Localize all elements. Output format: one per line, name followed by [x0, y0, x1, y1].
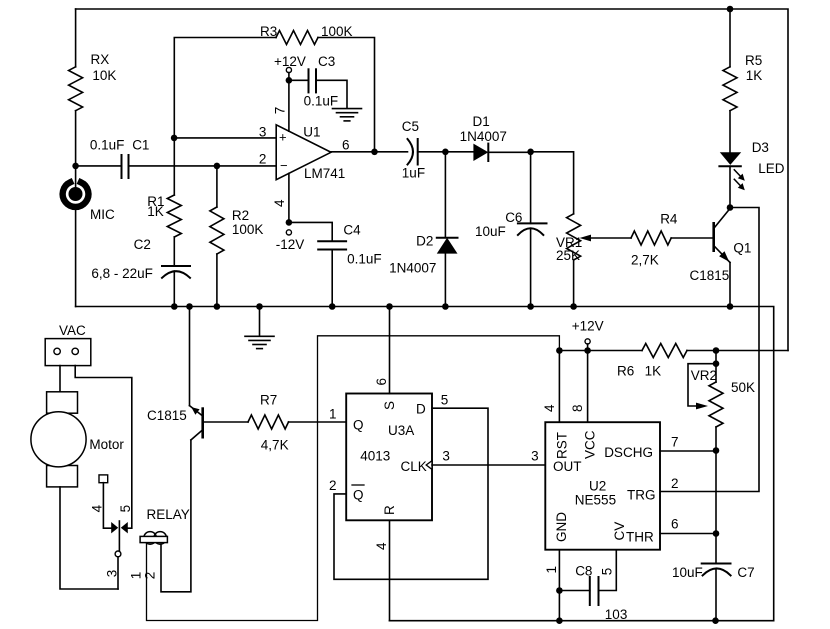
node rail C6 — [527, 303, 534, 310]
svg-text:5: 5 — [118, 505, 133, 513]
wire R2 bottom — [216, 254, 218, 307]
pin 2 label — [259, 151, 267, 166]
LED D3 — [719, 140, 784, 208]
svg-text:C1: C1 — [132, 138, 149, 153]
svg-text:RX: RX — [91, 52, 110, 67]
svg-text:R7: R7 — [260, 393, 277, 408]
svg-text:VCC: VCC — [583, 430, 598, 459]
svg-text:C1815: C1815 — [147, 408, 187, 423]
svg-text:4: 4 — [272, 199, 287, 207]
node R6 left junction — [556, 347, 563, 354]
wire pin3 — [174, 124, 276, 139]
svg-text:6: 6 — [671, 516, 679, 531]
wire bottom ground rail — [390, 620, 774, 622]
svg-text:D3: D3 — [752, 140, 769, 155]
svg-text:C5: C5 — [402, 119, 419, 134]
svg-text:Q1: Q1 — [733, 241, 751, 256]
node rail R1 — [171, 303, 178, 310]
wire +12V top rail and right edge — [76, 9, 788, 351]
svg-text:C4: C4 — [343, 222, 361, 237]
wire rail to Q2 — [189, 307, 191, 406]
svg-text:3: 3 — [259, 124, 267, 139]
wire 555 pin5 CV — [599, 550, 617, 590]
svg-text:CLK: CLK — [401, 459, 427, 474]
wire op-amp output — [331, 151, 408, 153]
resistor R2 — [210, 207, 264, 254]
node op-amp output junction — [371, 149, 378, 156]
svg-text:10uF: 10uF — [475, 224, 506, 239]
node VR2 top junction — [713, 347, 720, 354]
wire R1 to C2 — [173, 237, 175, 266]
svg-text:D2: D2 — [416, 234, 433, 249]
svg-text:CV: CV — [612, 522, 627, 541]
resistor R5 — [723, 53, 762, 111]
+12V supply 555 — [572, 319, 604, 352]
ground symbol C3 — [333, 109, 362, 121]
transistor Q2 C1815 — [147, 406, 203, 440]
wire pin4 — [272, 173, 289, 222]
wire R5 to LED — [729, 111, 731, 152]
svg-text:D1: D1 — [473, 114, 490, 129]
wire VAC right to contact 5 — [75, 366, 132, 529]
wire Q1 collector to TRG — [660, 208, 759, 492]
svg-text:+12V: +12V — [274, 54, 306, 69]
wire R5 top — [729, 9, 731, 67]
svg-text:C6: C6 — [505, 210, 522, 225]
wire to D1 — [445, 151, 473, 153]
svg-text:4013: 4013 — [360, 449, 390, 464]
node C8 junction — [556, 587, 563, 594]
svg-text:0.1uF: 0.1uF — [347, 251, 382, 266]
wire RX to mic node — [75, 111, 77, 166]
wire relay pin1 to +12V line — [147, 336, 560, 621]
svg-text:2: 2 — [329, 478, 337, 493]
svg-text:0.1uF: 0.1uF — [304, 93, 339, 108]
diode D2 — [389, 234, 457, 307]
potentiometer VR1 — [556, 214, 631, 307]
svg-text:8: 8 — [570, 404, 585, 412]
resistor R3 — [260, 24, 353, 45]
wire 555 pin7 DSCHG — [660, 435, 716, 452]
svg-text:RST: RST — [555, 432, 570, 459]
capacitor C2 — [91, 237, 190, 307]
IC U3A 4013 — [346, 394, 432, 521]
wire U3A pin6 S — [374, 307, 390, 394]
node THR junction — [713, 530, 720, 537]
svg-text:50K: 50K — [731, 380, 755, 395]
VAC source — [45, 323, 91, 366]
svg-text:1K: 1K — [147, 204, 164, 219]
svg-text:3: 3 — [531, 449, 539, 464]
wire U3A pin5 D to pin2 Qbar — [329, 393, 488, 580]
svg-text:5: 5 — [441, 393, 449, 408]
ground symbol rail — [245, 307, 274, 349]
wire 555 pin6 THR — [660, 516, 716, 533]
capacitor C3 — [289, 54, 347, 108]
node mic/C1 junction — [72, 163, 79, 170]
node rail VR1 — [570, 303, 577, 310]
svg-text:NE555: NE555 — [575, 493, 616, 508]
svg-text:−: − — [280, 158, 288, 173]
svg-text:10K: 10K — [92, 68, 116, 83]
svg-text:U2: U2 — [589, 479, 606, 494]
wire mic node to MIC — [75, 166, 77, 194]
node rail ground — [256, 303, 263, 310]
svg-text:1N4007: 1N4007 — [389, 261, 436, 276]
node bottom rail 555 GND — [556, 617, 563, 624]
svg-text:OUT: OUT — [553, 459, 582, 474]
svg-text:R: R — [382, 505, 397, 515]
node bottom rail C7 — [712, 617, 719, 624]
capacitor C5 — [402, 119, 446, 180]
svg-text:C7: C7 — [737, 565, 754, 580]
wire MIC to ground rail — [75, 210, 77, 306]
capacitor C4 — [289, 222, 382, 306]
node DSCHG junction — [713, 447, 720, 454]
svg-text:MIC: MIC — [90, 207, 115, 222]
svg-text:R3: R3 — [260, 24, 277, 39]
wire pin3 node down to R1 — [173, 138, 175, 195]
node +12V junction — [286, 77, 293, 84]
wire 555 pin8 VCC — [570, 351, 588, 423]
node rail R2 — [214, 303, 221, 310]
svg-text:DSCHG: DSCHG — [604, 445, 653, 460]
svg-text:Q: Q — [353, 488, 364, 503]
svg-text:C2: C2 — [134, 237, 151, 252]
wire left edge above RX — [75, 9, 77, 67]
svg-text:0.1uF: 0.1uF — [90, 138, 125, 153]
transistor Q1 — [690, 209, 752, 307]
svg-text:1: 1 — [129, 572, 144, 580]
capacitor C1 — [76, 138, 277, 178]
wire mid ground rail — [76, 307, 774, 621]
node rail D2 — [442, 303, 449, 310]
svg-text:5: 5 — [600, 568, 615, 576]
IC U2 NE555 — [545, 422, 660, 550]
wire U3A pin1 Q label — [329, 407, 337, 422]
-12V supply U1 — [276, 230, 305, 252]
svg-text:1uF: 1uF — [402, 165, 425, 180]
svg-text:2,7K: 2,7K — [631, 253, 659, 268]
svg-text:+: + — [279, 130, 287, 145]
svg-text:6: 6 — [342, 138, 350, 153]
svg-text:TRG: TRG — [627, 488, 656, 503]
node VCC junction — [584, 347, 591, 354]
555 pin2 TRG label — [671, 476, 679, 491]
svg-text:LED: LED — [758, 161, 785, 176]
svg-text:4: 4 — [374, 542, 389, 550]
wire Q2 bottom to relay pin2 — [161, 440, 191, 592]
wire 555 pin4 RST — [542, 351, 559, 423]
microphone MIC — [63, 182, 115, 222]
node rail C4 — [329, 303, 336, 310]
svg-text:103: 103 — [605, 607, 628, 622]
node Q1 collector junction — [727, 204, 734, 211]
svg-text:1: 1 — [544, 566, 559, 574]
svg-text:RELAY: RELAY — [147, 507, 190, 522]
svg-text:2: 2 — [671, 476, 679, 491]
svg-text:7: 7 — [273, 107, 288, 115]
svg-text:R2: R2 — [232, 208, 249, 223]
wire D2 top — [444, 152, 446, 238]
svg-text:100K: 100K — [232, 222, 264, 237]
relay contact pin5 — [118, 505, 133, 534]
resistor RX — [69, 52, 117, 111]
node top rail to R5 — [727, 6, 734, 13]
node rail Q2 — [186, 303, 193, 310]
svg-text:6,8 - 22uF: 6,8 - 22uF — [91, 266, 153, 281]
svg-text:1K: 1K — [746, 68, 763, 83]
svg-text:4: 4 — [90, 504, 105, 512]
svg-text:GND: GND — [554, 512, 569, 542]
svg-text:1N4007: 1N4007 — [460, 129, 507, 144]
svg-text:10uF: 10uF — [672, 565, 703, 580]
op-amp U1 — [276, 125, 349, 181]
svg-text:1K: 1K — [645, 364, 662, 379]
wire D1 to VR1 — [531, 152, 574, 214]
svg-text:3: 3 — [105, 570, 120, 578]
wire R6 line — [559, 350, 788, 352]
node -12V junction — [286, 219, 293, 226]
capacitor C7 — [672, 564, 755, 621]
+12V supply U1 — [274, 54, 306, 80]
resistor R6 — [617, 344, 687, 379]
motor M — [31, 392, 125, 487]
svg-text:2: 2 — [259, 151, 267, 166]
wire U3A pin3 CLK to 555 OUT — [432, 449, 545, 465]
wire pin7 — [273, 80, 289, 131]
capacitor C6 — [475, 152, 547, 307]
svg-text:VAC: VAC — [59, 323, 86, 338]
relay pin 2 label — [143, 572, 158, 580]
svg-text:R6: R6 — [617, 364, 634, 379]
wire VR2 to THR to C7 — [715, 450, 717, 564]
svg-text:S: S — [382, 401, 397, 410]
wire motor to contact common — [60, 487, 118, 589]
svg-text:VR2: VR2 — [691, 368, 717, 383]
svg-text:U3A: U3A — [388, 423, 414, 438]
resistor R4 — [631, 211, 714, 267]
wire R3 right to output — [318, 38, 375, 152]
svg-text:C8: C8 — [575, 563, 592, 578]
resistor R1 — [147, 194, 181, 237]
svg-text:3: 3 — [442, 449, 450, 464]
node op-amp pin3 junction — [171, 135, 178, 142]
relay coil RELAY — [140, 507, 190, 544]
svg-text:4: 4 — [542, 404, 557, 412]
svg-text:-12V: -12V — [276, 237, 305, 252]
node rail U3A S — [386, 303, 393, 310]
wire 555 pin1 GND — [544, 550, 559, 621]
svg-text:1: 1 — [329, 407, 337, 422]
wire R2 top — [216, 166, 218, 207]
svg-text:Q: Q — [353, 418, 364, 433]
svg-text:+12V: +12V — [572, 319, 604, 334]
relay contact pin4 — [90, 475, 119, 534]
svg-text:25K: 25K — [556, 248, 580, 263]
resistor R7 — [203, 393, 347, 453]
svg-text:LM741: LM741 — [304, 166, 345, 181]
node C6 junction — [527, 149, 534, 156]
svg-text:U1: U1 — [303, 125, 320, 140]
capacitor C8 — [559, 563, 627, 622]
wire VAC left to motor — [59, 366, 61, 392]
svg-text:R5: R5 — [745, 53, 762, 68]
diode D1 — [460, 114, 531, 161]
svg-text:7: 7 — [671, 435, 679, 450]
node D2 junction — [442, 149, 449, 156]
potentiometer VR2 — [688, 351, 755, 450]
wire U3A pin4 R — [374, 521, 390, 621]
svg-text:D: D — [416, 402, 426, 417]
svg-text:C1815: C1815 — [690, 268, 730, 283]
wire R3 left vertical — [174, 38, 276, 138]
node R2 junction — [214, 163, 221, 170]
svg-text:C3: C3 — [318, 54, 335, 69]
svg-text:R4: R4 — [660, 211, 678, 226]
relay pin 1 label — [129, 572, 144, 580]
svg-text:Motor: Motor — [89, 437, 124, 452]
svg-text:6: 6 — [374, 378, 389, 386]
relay contact common pin3 — [105, 521, 121, 589]
svg-text:4,7K: 4,7K — [261, 437, 289, 452]
svg-text:THR: THR — [626, 530, 654, 545]
svg-text:2: 2 — [143, 572, 158, 580]
node rail Q1 — [727, 303, 734, 310]
